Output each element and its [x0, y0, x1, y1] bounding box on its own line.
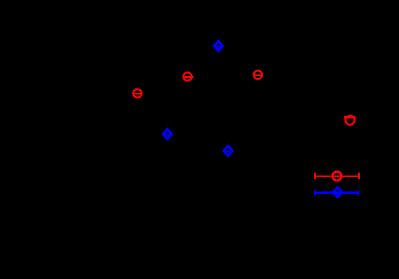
blue diamond marker D3 — [223, 146, 233, 156]
blue diamond marker D2 — [162, 129, 172, 139]
red legend errorbar — [314, 172, 359, 181]
red circle marker R3 — [133, 89, 141, 97]
red circle marker R1 — [183, 72, 193, 80]
red circle marker R2 — [254, 71, 263, 79]
blue legend errorbar — [314, 187, 360, 197]
blue diamond marker D1 — [213, 41, 223, 51]
red circle marker R4 — [344, 116, 355, 125]
